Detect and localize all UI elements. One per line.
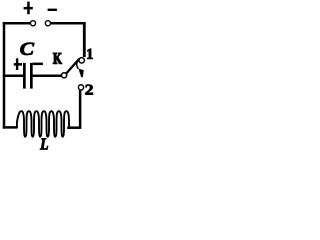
toggle arrow tail <box>77 59 79 69</box>
label 2 <box>85 85 92 95</box>
wire bottom-right horizontal <box>67 126 80 129</box>
capacitor label C <box>20 43 34 55</box>
contact 1 circle <box>79 58 84 63</box>
toggle arrow head <box>78 69 83 78</box>
capacitor left plate <box>23 63 26 89</box>
battery - label <box>48 9 57 11</box>
LC oscillation circuit schematic <box>0 0 97 160</box>
wire bottom-left horizontal <box>3 126 18 129</box>
inductor coil <box>17 111 71 137</box>
wire capacitor right lead to switch pivot <box>33 74 62 77</box>
switch blade <box>66 59 79 74</box>
wire right vertical to contact 1 <box>83 22 86 57</box>
wire capacitor left lead <box>3 74 23 77</box>
switch label K <box>53 53 62 64</box>
terminal circle left <box>30 21 35 26</box>
capacitor right plate <box>30 63 33 89</box>
terminal circle right <box>45 21 50 26</box>
wire contact-2 drop vertical <box>79 90 82 129</box>
label 1 <box>87 49 92 59</box>
wire left vertical <box>3 22 6 129</box>
battery + label <box>24 2 33 15</box>
capacitor plus mark <box>14 58 22 70</box>
switch pivot circle <box>62 73 67 78</box>
inductor label L <box>40 139 48 150</box>
capacitor minus mark <box>33 63 43 66</box>
wire top-left horizontal <box>3 22 31 25</box>
wire top-right horizontal <box>51 22 86 25</box>
contact 2 circle <box>78 85 83 90</box>
